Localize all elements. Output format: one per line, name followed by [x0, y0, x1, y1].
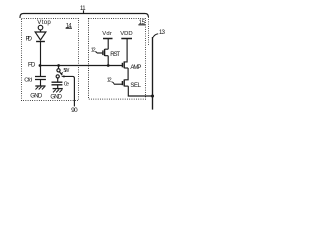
svg-text:Vdr: Vdr: [102, 31, 112, 37]
svg-text:13: 13: [159, 30, 166, 36]
svg-text:PD: PD: [26, 37, 33, 43]
svg-text:15: 15: [139, 20, 146, 26]
svg-text:SW: SW: [63, 68, 69, 74]
svg-text:VDD: VDD: [120, 31, 132, 37]
svg-text:GND: GND: [30, 93, 43, 99]
svg-text:SEL: SEL: [130, 83, 141, 89]
svg-text:Cfd: Cfd: [24, 77, 32, 83]
svg-text:14: 14: [66, 23, 72, 29]
svg-text:GND: GND: [50, 94, 62, 100]
svg-text:Vtop: Vtop: [37, 19, 51, 26]
svg-text:90: 90: [71, 107, 78, 114]
svg-text:12: 12: [91, 48, 96, 54]
svg-text:11: 11: [80, 6, 86, 12]
svg-text:12: 12: [107, 78, 112, 84]
svg-text:FD: FD: [28, 62, 36, 68]
svg-text:AMP: AMP: [130, 65, 141, 71]
svg-text:Ce: Ce: [64, 81, 69, 87]
svg-text:RST: RST: [110, 52, 120, 58]
